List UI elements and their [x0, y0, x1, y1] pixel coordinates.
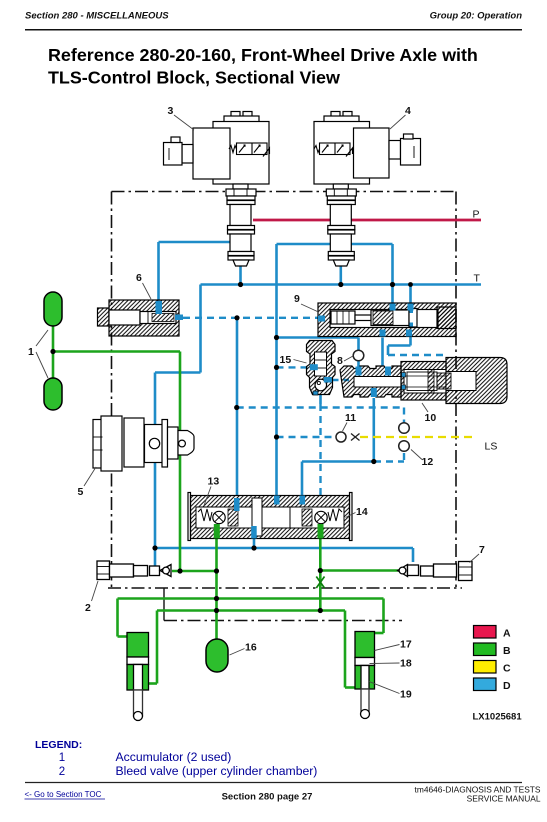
- svg-text:10: 10: [425, 412, 437, 424]
- svg-text:A: A: [503, 628, 511, 640]
- svg-text:19: 19: [400, 689, 412, 701]
- svg-text:9: 9: [294, 293, 300, 305]
- svg-text:T: T: [474, 273, 481, 285]
- svg-text:Section 280 - MISCELLANEOUS: Section 280 - MISCELLANEOUS: [25, 11, 169, 22]
- svg-text:<- Go to Section TOC: <- Go to Section TOC: [25, 790, 102, 799]
- svg-text:1: 1: [28, 346, 34, 358]
- svg-text:4: 4: [405, 105, 411, 117]
- svg-text:1: 1: [59, 752, 65, 764]
- svg-text:18: 18: [400, 658, 412, 670]
- svg-text:C: C: [503, 663, 511, 675]
- svg-text:6: 6: [136, 272, 142, 284]
- svg-text:2: 2: [85, 602, 91, 614]
- svg-text:14: 14: [356, 506, 368, 518]
- svg-text:Bleed valve (upper cylinder ch: Bleed valve (upper cylinder chamber): [116, 764, 318, 778]
- svg-text:16: 16: [245, 642, 257, 654]
- svg-text:2: 2: [59, 766, 65, 778]
- svg-text:17: 17: [400, 639, 412, 651]
- svg-text:7: 7: [479, 544, 485, 556]
- svg-text:P: P: [473, 209, 480, 221]
- svg-text:Reference 280-20-160, Front-Wh: Reference 280-20-160, Front-Wheel Drive …: [48, 45, 478, 65]
- svg-text:TLS-Control Block, Sectional V: TLS-Control Block, Sectional View: [48, 68, 340, 88]
- svg-text:5: 5: [78, 486, 84, 498]
- svg-text:3: 3: [168, 105, 174, 117]
- svg-text:Group 20: Operation: Group 20: Operation: [430, 11, 523, 22]
- svg-text:D: D: [503, 680, 511, 692]
- svg-text:Accumulator (2 used): Accumulator (2 used): [116, 750, 232, 764]
- svg-text:15: 15: [280, 354, 292, 366]
- svg-text:LEGEND:: LEGEND:: [35, 739, 82, 751]
- svg-text:12: 12: [422, 456, 434, 468]
- svg-text:13: 13: [208, 476, 220, 488]
- svg-text:B: B: [503, 645, 511, 657]
- svg-text:SERVICE MANUAL: SERVICE MANUAL: [467, 794, 541, 804]
- svg-text:Section 280 page 27: Section 280 page 27: [222, 792, 313, 803]
- svg-text:LS: LS: [485, 441, 498, 453]
- svg-text:LX1025681: LX1025681: [473, 712, 523, 723]
- svg-text:8: 8: [337, 355, 343, 367]
- svg-text:11: 11: [345, 412, 356, 424]
